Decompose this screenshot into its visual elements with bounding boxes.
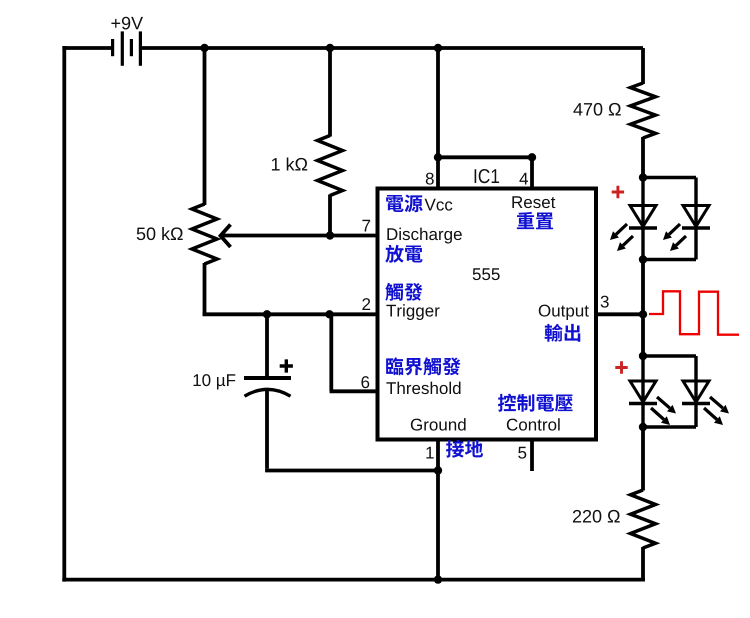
wire pin 3 output <box>596 312 643 316</box>
wire top rail from battery to right corner <box>142 46 643 50</box>
label +9V <box>111 17 143 30</box>
node junction LED pair 1 bottom <box>639 255 647 263</box>
capacitor C1 polarity plus <box>280 359 293 372</box>
polarity plus LED pair 2 <box>615 361 627 373</box>
pin number 2 <box>362 298 370 310</box>
label Trigger <box>386 304 439 320</box>
wire LED pair 2 to R4 <box>641 427 645 491</box>
wire threshold branch to IC pin 6 <box>330 389 378 393</box>
wire from top rail down to potentiometer <box>203 48 207 205</box>
pin number 6 <box>361 376 369 388</box>
wire trigger from potentiometer to IC pin 2 <box>203 312 378 316</box>
polarity plus LED pair 1 <box>612 186 624 198</box>
node junction pin 8 branch <box>434 153 442 161</box>
wire LED pair 1 to output node <box>641 260 645 315</box>
wire LED pair 1 right branch <box>643 176 696 179</box>
label 470 Ohm <box>573 103 620 116</box>
output square wave symbol <box>649 291 739 334</box>
op-amp timer IC U1 555 body <box>378 189 597 440</box>
wire R4 to bottom rail <box>641 547 645 580</box>
pin number 8 <box>426 173 434 185</box>
wire output node to LED pair 2 <box>641 314 645 356</box>
label Ground <box>411 418 466 430</box>
wire from trigger node down to capacitor <box>265 314 269 377</box>
wire from R1 bottom to pin 7 node <box>328 195 332 236</box>
pin number 3 <box>601 296 609 308</box>
label Chinese jiedi (ground) <box>446 440 483 458</box>
node junction trigger / threshold branch <box>325 310 333 318</box>
capacitor C1 curved bottom plate <box>245 389 291 396</box>
resistor R4 220 Ohm <box>631 490 656 548</box>
label Vcc with Chinese dianyuan <box>386 195 423 213</box>
label 220 Ohm <box>573 510 620 523</box>
node junction output pin 3 <box>639 310 647 318</box>
label Chinese fangdian (discharge) <box>385 245 422 263</box>
label IC1 <box>475 169 500 183</box>
LED D2 <box>683 206 709 227</box>
wire pin 1 from IC to bottom rail <box>436 440 440 580</box>
wire reset branch pin8 to pin4 <box>438 155 532 159</box>
label Chinese linjie chufa (threshold) <box>386 357 460 375</box>
potentiometer R2 50 kOhm body <box>192 204 217 264</box>
label 555 <box>473 268 500 280</box>
LED D4 <box>683 381 709 402</box>
pin number 1 <box>426 447 433 459</box>
node junction top rail / potentiometer branch <box>200 44 208 52</box>
wire pin 4 down to IC <box>530 157 534 188</box>
resistor R3 470 Ohm <box>631 83 656 138</box>
wire threshold branch down <box>329 314 333 391</box>
label Chinese kongzhi dianya (control voltage) <box>498 394 573 412</box>
potentiometer wiper arrow <box>223 234 330 238</box>
wire pin 5 stub <box>530 440 534 472</box>
node junction pin 1 / capacitor return <box>434 466 442 474</box>
resistor R1 1 kOhm <box>318 136 343 196</box>
pin number 5 <box>518 447 526 459</box>
wire from top rail down to R1 <box>328 48 332 137</box>
wire pin 8 from top rail to IC <box>436 48 440 189</box>
LED D3 <box>630 381 656 402</box>
node junction R1 / wiper / pin 7 <box>326 231 334 239</box>
label Discharge <box>387 228 461 244</box>
node junction LED pair 2 bottom <box>639 423 647 431</box>
node junction LED pair 2 top <box>639 352 647 360</box>
label 1 kOhm <box>272 157 307 170</box>
label Chinese shuchu (output) <box>545 324 581 342</box>
wire from capacitor down and right to pin 1 node <box>265 390 269 469</box>
node junction LED pair 1 top <box>639 173 647 181</box>
label Chinese chongzhi (reset) <box>517 212 553 229</box>
wire left rail <box>62 46 66 582</box>
pin number 4 <box>519 173 528 185</box>
label Output <box>539 305 589 320</box>
battery BT1 +9V <box>111 39 114 56</box>
node junction trigger / capacitor <box>263 310 271 318</box>
node junction top rail / R1 branch <box>326 44 334 52</box>
label Threshold <box>386 382 460 394</box>
node junction pin 4 branch <box>528 153 536 161</box>
wire bottom rail <box>62 578 645 582</box>
wire LED pair 2 right branch <box>643 354 696 357</box>
label 10 uF <box>193 374 235 389</box>
wire pin 7 to IC <box>330 234 378 238</box>
wire R3 to LED pair 1 <box>641 137 645 178</box>
label 50 kOhm <box>137 227 183 240</box>
wire from top rail corner to R3 <box>641 48 645 84</box>
wire from potentiometer bottom to trigger node <box>203 263 207 314</box>
pin number 7 <box>362 220 370 232</box>
label Chinese chufa (trigger) <box>385 283 422 301</box>
capacitor C1 top plate <box>244 376 291 380</box>
node junction pin 1 / bottom rail <box>434 575 442 583</box>
wire top rail left segment <box>62 46 111 50</box>
label Control <box>507 418 560 430</box>
LED D1 <box>630 206 656 227</box>
node junction top rail / pin 8 branch <box>434 44 442 52</box>
label Reset <box>512 196 555 208</box>
